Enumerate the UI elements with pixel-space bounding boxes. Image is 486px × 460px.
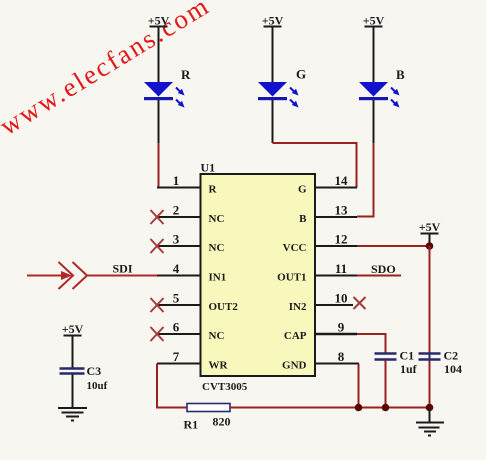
svg-text:NC: NC bbox=[209, 242, 225, 254]
svg-text:OUT2: OUT2 bbox=[209, 301, 239, 313]
svg-text:VCC: VCC bbox=[283, 242, 307, 254]
power +5V (LED B) bbox=[363, 14, 385, 83]
pin 4 (IN1) bbox=[157, 261, 226, 284]
no-connect X pin 10 bbox=[354, 297, 366, 309]
svg-text:+5V: +5V bbox=[62, 322, 84, 336]
power +5V (LED R) bbox=[148, 14, 170, 83]
svg-text:C2: C2 bbox=[444, 349, 459, 363]
svg-text:G: G bbox=[298, 184, 307, 196]
ground bus wire R1 to ground bbox=[230, 407, 430, 409]
no-connect X pin 5 bbox=[151, 298, 164, 312]
resistor R1 bbox=[184, 404, 231, 432]
svg-text:G: G bbox=[296, 67, 306, 82]
no-connect X pin 2 bbox=[151, 210, 164, 224]
svg-text:4: 4 bbox=[173, 261, 180, 276]
svg-text:5: 5 bbox=[173, 291, 180, 306]
pin 5 (OUT2) bbox=[157, 291, 238, 314]
no-connect X pin 6 bbox=[151, 327, 164, 341]
junction C1/bus bbox=[382, 404, 390, 412]
svg-text:WR: WR bbox=[209, 360, 229, 372]
svg-text:SDO: SDO bbox=[371, 262, 396, 276]
svg-text:B: B bbox=[299, 213, 307, 225]
junction dot at +5V / pin 12 bbox=[426, 242, 434, 250]
wire LED G to pin 14 bbox=[273, 143, 357, 188]
svg-text:7: 7 bbox=[173, 349, 180, 364]
svg-text:U1: U1 bbox=[201, 161, 216, 175]
capacitor C2 bbox=[419, 349, 463, 408]
pin 6 (NC) bbox=[157, 320, 224, 343]
wire LED R to pin 1 bbox=[158, 143, 160, 188]
junction pin8/bus bbox=[355, 404, 363, 412]
svg-text:14: 14 bbox=[335, 173, 349, 188]
LED B bbox=[359, 67, 405, 143]
svg-text:104: 104 bbox=[444, 362, 462, 376]
pin 14 (G) bbox=[298, 173, 357, 196]
pin 1 (R) bbox=[157, 173, 218, 196]
svg-text:3: 3 bbox=[173, 232, 180, 247]
wire pin 11 SDO bbox=[357, 262, 401, 276]
pin 3 (NC) bbox=[157, 232, 224, 255]
SDI input port bbox=[27, 262, 157, 290]
wire pin 12 to +5V bbox=[357, 245, 430, 247]
svg-text:IN1: IN1 bbox=[209, 272, 227, 284]
wire LED B to pin 13 bbox=[357, 143, 374, 217]
svg-text:B: B bbox=[396, 67, 405, 82]
svg-text:OUT1: OUT1 bbox=[277, 272, 306, 284]
pin 10 (IN2) bbox=[289, 291, 353, 314]
power +5V (right) bbox=[419, 220, 441, 246]
svg-text:C3: C3 bbox=[87, 364, 102, 378]
no-connect X pin 3 bbox=[151, 239, 164, 253]
wire pin 7 down to R1 bbox=[157, 364, 187, 408]
svg-text:+5V: +5V bbox=[363, 14, 385, 28]
svg-text:R: R bbox=[181, 67, 191, 82]
svg-text:NC: NC bbox=[209, 213, 225, 225]
svg-text:+5V: +5V bbox=[262, 14, 284, 28]
svg-text:NC: NC bbox=[209, 330, 225, 342]
svg-text:9: 9 bbox=[338, 320, 345, 335]
pin 2 (NC) bbox=[157, 203, 224, 226]
pin 7 (WR) bbox=[157, 349, 229, 372]
svg-text:SDI: SDI bbox=[113, 262, 133, 276]
pin 12 (VCC) bbox=[283, 232, 357, 255]
svg-text:1uf: 1uf bbox=[400, 362, 418, 376]
svg-text:IN2: IN2 bbox=[289, 301, 307, 313]
junction C2/bus/ground bbox=[426, 404, 434, 412]
capacitor C3 bbox=[60, 364, 108, 408]
LED R bbox=[144, 67, 191, 143]
power +5V (LED G) bbox=[262, 14, 284, 83]
svg-text:6: 6 bbox=[173, 320, 180, 335]
wire pin 8 down to ground bus bbox=[358, 364, 360, 408]
svg-text:R: R bbox=[209, 184, 218, 196]
svg-text:820: 820 bbox=[213, 415, 231, 429]
svg-text:GND: GND bbox=[282, 360, 307, 372]
svg-text:10: 10 bbox=[335, 291, 348, 306]
svg-text:+5V: +5V bbox=[148, 14, 170, 28]
capacitor C1 bbox=[375, 349, 418, 408]
wire pin 9 to C1 bbox=[357, 334, 386, 353]
svg-text:CVT3005: CVT3005 bbox=[202, 381, 248, 393]
pin 11 (OUT1) bbox=[277, 261, 357, 284]
svg-text:CAP: CAP bbox=[284, 330, 307, 342]
LED G bbox=[258, 67, 306, 144]
svg-text:8: 8 bbox=[338, 349, 345, 364]
wire +5V down to C2 bbox=[429, 246, 431, 353]
svg-text:R1: R1 bbox=[184, 418, 199, 432]
pin 9 (CAP) bbox=[284, 320, 357, 343]
svg-text:+5V: +5V bbox=[419, 220, 441, 234]
svg-text:1: 1 bbox=[173, 173, 180, 188]
pin 8 (GND) bbox=[282, 349, 359, 372]
svg-text:10uf: 10uf bbox=[87, 380, 108, 392]
ground (right, below C2) bbox=[416, 408, 444, 436]
IC U1 CVT3005 body bbox=[201, 161, 316, 394]
svg-text:13: 13 bbox=[335, 203, 349, 218]
svg-text:C1: C1 bbox=[400, 349, 415, 363]
svg-text:12: 12 bbox=[335, 232, 348, 247]
ground (below C3) bbox=[58, 408, 87, 421]
svg-text:11: 11 bbox=[335, 261, 347, 276]
power +5V (C3) bbox=[62, 322, 84, 368]
svg-text:2: 2 bbox=[173, 203, 180, 218]
pin 13 (B) bbox=[299, 203, 357, 226]
